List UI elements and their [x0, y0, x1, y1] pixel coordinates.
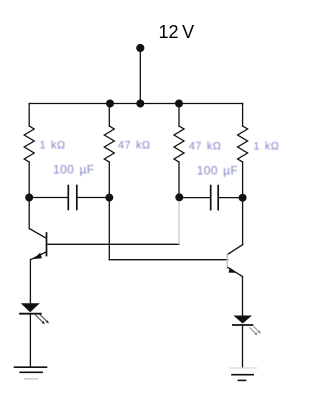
- svg-text:47 kΩ: 47 kΩ: [189, 140, 222, 152]
- svg-text:12: 12: [159, 22, 179, 42]
- svg-text:100 µF: 100 µF: [53, 162, 95, 176]
- svg-text:1 kΩ: 1 kΩ: [40, 139, 66, 151]
- svg-text:V: V: [182, 22, 194, 42]
- svg-text:1 kΩ: 1 kΩ: [253, 140, 279, 152]
- svg-text:47 kΩ: 47 kΩ: [118, 139, 151, 151]
- svg-text:100 µF: 100 µF: [197, 163, 239, 177]
